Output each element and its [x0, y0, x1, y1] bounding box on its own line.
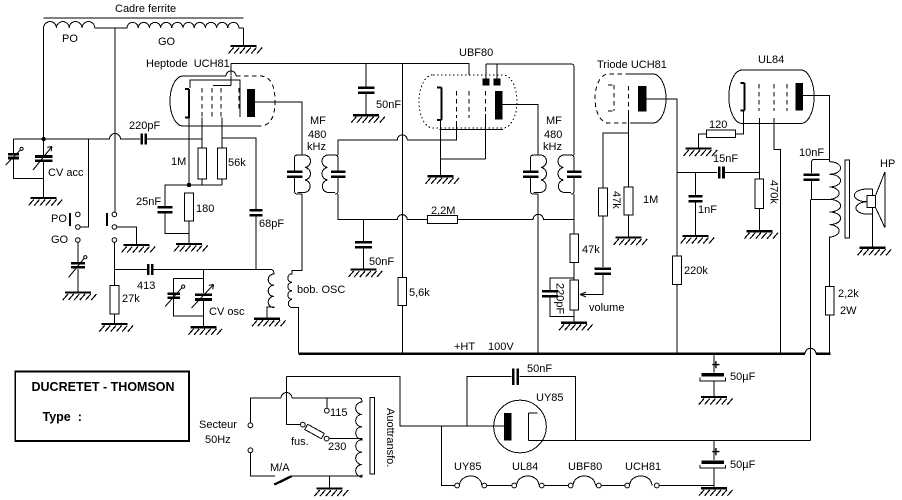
wire U1 grid2 down: [221, 118, 223, 149]
U4 grid dashes: [759, 84, 787, 111]
wire switch bottom contact to oscillator line: [113, 243, 115, 270]
speaker HP: [867, 158, 895, 248]
svg-text:15nF: 15nF: [713, 153, 738, 165]
resistor 47k (detector load): [570, 234, 600, 280]
svg-text:120: 120: [709, 119, 727, 131]
potentiometer volume: [570, 280, 625, 323]
ground (50uF HT): [699, 397, 733, 405]
U1 internal grid connector: [190, 76, 240, 117]
wire U1 anode to MF1: [255, 102, 302, 155]
wire heater chain feed: [442, 426, 455, 485]
wire U2 cathode to ground: [440, 120, 442, 177]
wire U4 grid1 to 15nF node: [758, 118, 760, 179]
svg-text:1nF: 1nF: [698, 204, 717, 216]
svg-text:kHz: kHz: [307, 141, 326, 153]
transformer core (autotransfo): [370, 398, 374, 474]
U3 grid dashes: [628, 86, 630, 112]
capacitor 50nF (rectifier): [467, 363, 576, 441]
svg-text:UL84: UL84: [758, 54, 784, 66]
triode U3 Triode UCH81: [595, 59, 667, 123]
trimmer capacitor (antenna trimmer): [6, 139, 44, 179]
svg-text:50nF: 50nF: [376, 99, 401, 111]
trimmer capacitor (osc trimmer): [165, 285, 185, 307]
capacitor 68pF: [222, 138, 284, 270]
svg-text:Type :: Type :: [43, 410, 82, 424]
svg-text:Auottransfo.: Auottransfo.: [384, 408, 396, 467]
fuse fus.: [291, 422, 329, 448]
svg-text:50nF: 50nF: [527, 363, 552, 375]
ground (GO trimmer): [63, 293, 97, 301]
wire PO left end down to tuning node: [43, 28, 45, 139]
coil GO (antenna winding): [115, 22, 243, 48]
heater UY85: [454, 461, 487, 488]
wire heater link: [487, 485, 512, 487]
svg-text:kHz: kHz: [543, 141, 562, 153]
svg-text:50µF: 50µF: [730, 371, 756, 383]
wire heater return: [659, 485, 714, 487]
capacitor 50nF (screen decoupling): [358, 64, 401, 116]
capacitor 50nF (AVC decoupling): [355, 220, 394, 270]
svg-text:DUCRETET - THOMSON: DUCRETET - THOMSON: [32, 380, 175, 394]
inductor bob. OSC primary: [267, 273, 345, 319]
svg-text:+HT: +HT: [454, 341, 475, 353]
pentode-heptode U1 Heptode UCH81: [146, 58, 275, 126]
svg-text:HP: HP: [880, 158, 895, 170]
wire U2 suppressor tie to cathode: [440, 114, 503, 159]
label box DUCRETET - THOMSON: [15, 371, 189, 441]
resistor 47k (grid stopper): [599, 188, 622, 216]
wire U3 anode right: [647, 99, 678, 256]
svg-text:CV acc: CV acc: [48, 167, 84, 179]
wire U1 cathode down to node: [188, 118, 190, 185]
capacitor 220pF: [129, 120, 202, 145]
wire fuse feed from UY85 line: [287, 377, 301, 425]
svg-text:PO: PO: [51, 213, 67, 225]
svg-text:2,2M: 2,2M: [431, 205, 455, 217]
wire AVC line right: [458, 214, 575, 219]
resistor 120 (UL84 cathode): [699, 111, 744, 149]
svg-text:50nF: 50nF: [369, 256, 394, 268]
ground (cathode network): [174, 244, 208, 252]
capacitor coupling (volume to grid): [590, 216, 611, 295]
U1 grid dashes: [202, 88, 239, 117]
ground (speaker): [858, 248, 892, 256]
transformer MF1 480kHz primary: [287, 115, 326, 194]
transformer core: [845, 160, 850, 238]
wire U4 anode to output transformer: [803, 96, 830, 160]
U4 cathode: [740, 83, 744, 111]
wire MF2 primary bottom to HT rail: [537, 194, 539, 353]
variable capacitor CV acc: [33, 139, 84, 198]
heater UBF80: [568, 461, 602, 488]
wire mains to 115 tap and autotransfo top: [250, 398, 362, 423]
svg-text:100V: 100V: [488, 341, 514, 353]
svg-text:bob. OSC: bob. OSC: [297, 284, 345, 296]
svg-text:220pF: 220pF: [129, 120, 160, 132]
svg-text:220k: 220k: [684, 265, 708, 277]
U1 anode: [247, 89, 255, 117]
ground (1nF): [681, 236, 715, 244]
coil PO (antenna winding): [44, 22, 115, 45]
ground (CV acc): [29, 198, 63, 206]
svg-text:1M: 1M: [643, 194, 658, 206]
wire U1 grid1 down to R network: [201, 118, 203, 149]
ground (470k): [744, 231, 778, 239]
svg-text:fus.: fus.: [291, 436, 309, 448]
wire GO right end to ground: [243, 28, 245, 46]
svg-text:2,2k: 2,2k: [838, 288, 859, 300]
switch oscillator section: [107, 212, 117, 242]
wire detector rail: [486, 64, 574, 155]
wire screen rail (top): [231, 64, 469, 76]
wire B+ riser to output transformer tap: [810, 199, 812, 440]
svg-text:Heptode UCH81: Heptode UCH81: [146, 58, 230, 70]
transformer MF2 480kHz primary: [523, 115, 562, 194]
svg-text:UY85: UY85: [536, 392, 564, 404]
transformer output primary: [812, 159, 841, 286]
svg-text:UBF80: UBF80: [459, 47, 493, 59]
svg-text:GO: GO: [51, 234, 69, 246]
node A junction dot: [41, 137, 45, 141]
tube U4 UL84: [729, 54, 814, 124]
heater UL84: [512, 461, 544, 488]
wire +HT rail 100V: [298, 341, 830, 354]
svg-text:Cadre ferrite: Cadre ferrite: [115, 3, 176, 15]
resistor 180 (cathode): [185, 193, 215, 244]
wire switch middle contact to ground: [117, 227, 137, 245]
resistor 1M (U1 grid): [171, 148, 207, 179]
terminal 115: [324, 407, 347, 419]
svg-text:UL84: UL84: [512, 461, 538, 473]
inductor Auottransfo. winding: [292, 401, 362, 477]
ground (volume): [559, 323, 593, 331]
svg-text:volume: volume: [589, 302, 624, 314]
wire MF2 secondary bottom to detector load: [573, 194, 575, 234]
terminal Secteur 50Hz: [199, 419, 253, 453]
U2 cathode: [437, 88, 441, 120]
U2 pentode anode: [495, 91, 503, 120]
U2 diode anodes: [483, 64, 501, 86]
wire heater link: [544, 485, 568, 487]
svg-text:MF: MF: [310, 115, 326, 127]
svg-text:470k: 470k: [768, 180, 780, 204]
trimmer capacitor (GO trimmer): [69, 243, 87, 293]
svg-text:UY85: UY85: [454, 461, 482, 473]
ground (50uF input): [699, 488, 733, 496]
ground (switch): [122, 245, 156, 253]
capacitor 50uF (HT filter): [700, 355, 755, 397]
svg-text:68pF: 68pF: [259, 218, 284, 230]
inductor bob. OSC secondary: [288, 194, 302, 353]
U2 grid dashes: [457, 91, 486, 118]
U1 cathode: [185, 89, 189, 118]
switch PO/GO left section: [51, 212, 80, 246]
heater UCH81: [625, 461, 661, 488]
resistor 5,6k (screen feed): [398, 64, 430, 354]
svg-text:UCH81: UCH81: [625, 461, 661, 473]
wire autotransfo bottom to ground: [328, 476, 330, 489]
svg-text:5,6k: 5,6k: [409, 287, 430, 299]
svg-text:UBF80: UBF80: [568, 461, 602, 473]
wire MF1 secondary bottom to AVC line: [338, 194, 428, 220]
wire center tap down to wave switch (with crossover hop): [114, 28, 116, 212]
svg-text:25nF: 25nF: [136, 196, 161, 208]
wire coupling line 15nF: [677, 171, 717, 173]
U4 anode: [796, 83, 803, 111]
svg-text:CV osc: CV osc: [209, 306, 245, 318]
wire switch PO contact to tuning line: [80, 139, 88, 227]
svg-text:180: 180: [196, 203, 214, 215]
ground (50nF screen): [351, 115, 385, 123]
resistor 56k: [218, 148, 247, 179]
capacitor 25nF (cathode bypass): [136, 185, 189, 234]
wire autotransfo top to UY85 anode: [287, 377, 505, 427]
svg-text:56k: 56k: [228, 157, 246, 169]
svg-text:115: 115: [330, 407, 348, 419]
wire U4 screen to HT rail: [774, 118, 781, 353]
wire 230 tap: [329, 438, 362, 440]
node cathode junction dot: [187, 183, 191, 187]
svg-text:M/A: M/A: [270, 462, 290, 474]
wire resistor bottoms to cathode node: [189, 179, 222, 185]
resistor 2,2k 2W: [825, 286, 859, 353]
transformer MF1 480kHz secondary: [322, 155, 346, 194]
U3 anode: [638, 86, 647, 112]
svg-text:480: 480: [308, 129, 326, 141]
wire MF1 secondary top to UBF80 grid: [338, 121, 457, 155]
resistor 220k (U3 plate load): [673, 256, 709, 353]
svg-text:47k: 47k: [610, 191, 622, 209]
ground (27k): [99, 324, 133, 332]
svg-text:50µF: 50µF: [730, 459, 756, 471]
wire U1 triode grid to screen rail: [230, 64, 232, 76]
resistor 2,2M (AVC): [428, 205, 458, 224]
wire U3 grid down: [603, 112, 629, 189]
ground (autotransfo): [314, 489, 348, 497]
svg-text:480: 480: [544, 129, 562, 141]
wire oscillator tuning line: [114, 269, 147, 271]
svg-text:10nF: 10nF: [799, 147, 824, 159]
svg-text:Secteur: Secteur: [199, 419, 237, 431]
wire UY85 cathode B+ output: [537, 440, 810, 442]
svg-text:2W: 2W: [840, 305, 857, 317]
wire tuning line to 220pF: [13, 134, 140, 140]
transformer MF2 480kHz secondary: [558, 155, 582, 194]
U3 cathode (dashed): [608, 85, 614, 111]
capacitor 413 (padder): [137, 264, 274, 292]
capacitor 1nF: [689, 172, 718, 236]
capacitor 10nF: [799, 147, 824, 180]
rectifier U5 UY85: [494, 392, 564, 453]
svg-text:GO: GO: [158, 36, 176, 48]
svg-text:MF: MF: [546, 115, 562, 127]
ferrite rod antenna "Cadre ferrite": [44, 3, 244, 18]
ground (CV osc): [188, 327, 222, 335]
tube U2 UBF80: [419, 47, 517, 128]
wire heater link: [601, 485, 625, 487]
ground (U2 cathode): [426, 176, 460, 184]
capacitor 15nF: [713, 153, 759, 179]
ground (bob. OSC): [252, 319, 286, 327]
ground (120): [684, 149, 718, 157]
capacitor 220pF (detector filter): [542, 278, 574, 317]
svg-text:1M: 1M: [171, 156, 186, 168]
resistor 1M (U3 grid leak): [624, 187, 658, 237]
wire U2 anode to MF2: [503, 105, 539, 156]
switch M/A: [250, 453, 291, 485]
ground (antenna): [229, 46, 263, 54]
resistor 470k (UL84 grid leak): [755, 179, 779, 231]
capacitor 50uF (input filter): [700, 441, 755, 489]
svg-text:27k: 27k: [122, 293, 140, 305]
svg-text:47k: 47k: [582, 244, 600, 256]
svg-text:220pF: 220pF: [554, 283, 566, 314]
svg-text:230: 230: [328, 441, 346, 453]
svg-text:PO: PO: [62, 33, 78, 45]
ground (50nF AVC): [349, 270, 383, 278]
svg-text:Triode UCH81: Triode UCH81: [597, 59, 667, 71]
svg-text:413: 413: [137, 280, 155, 292]
resistor 27k: [110, 270, 140, 325]
variable capacitor CV osc: [174, 270, 245, 328]
transformer output secondary: [854, 189, 872, 214]
svg-text:50Hz: 50Hz: [205, 434, 231, 446]
ground (1M): [614, 238, 648, 246]
